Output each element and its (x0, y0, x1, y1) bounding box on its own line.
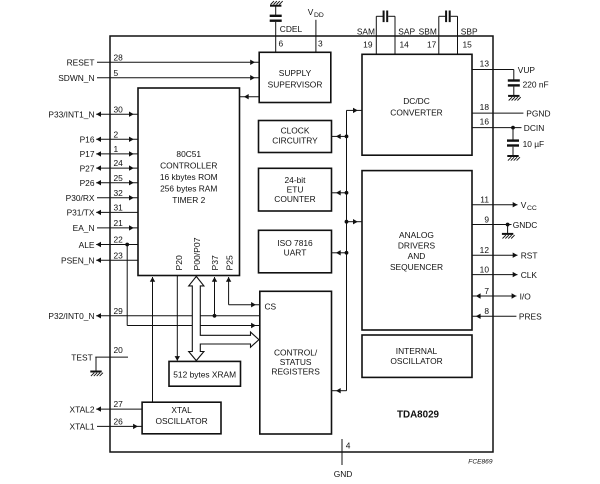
svg-text:10 µF: 10 µF (523, 139, 545, 149)
wire RESET pin 28 (97, 60, 259, 65)
svg-text:P25: P25 (225, 255, 235, 271)
svg-text:FCE869: FCE869 (468, 458, 493, 465)
svg-text:SBP: SBP (461, 27, 478, 37)
svg-text:9: 9 (484, 214, 489, 224)
svg-text:28: 28 (114, 52, 124, 62)
svg-text:SUPERVISOR: SUPERVISOR (268, 80, 323, 90)
capacitor 10 uF (507, 141, 519, 146)
svg-text:DD: DD (314, 12, 324, 19)
wire supply supervisor to 80C51 controller (240, 94, 260, 99)
svg-text:P37: P37 (210, 255, 220, 271)
svg-text:22: 22 (114, 235, 124, 245)
svg-text:3: 3 (318, 39, 323, 49)
svg-text:16 kbytes ROM: 16 kbytes ROM (160, 172, 218, 182)
block clock circuitry (259, 121, 332, 153)
svg-text:DCIN: DCIN (524, 123, 544, 133)
svg-text:CLK: CLK (521, 270, 538, 280)
wire P27 pin 24 (96, 165, 138, 170)
ground (TEST) (90, 372, 103, 377)
svg-text:RST: RST (521, 251, 538, 261)
wire CDEL pin 6 into supply supervisor (275, 22, 277, 52)
svg-text:5: 5 (114, 68, 119, 78)
svg-text:CONTROL/: CONTROL/ (274, 348, 318, 358)
svg-text:19: 19 (363, 40, 373, 50)
junction P37 to P32/INT0_N line (213, 314, 217, 318)
wire P37 to P32/INT0_N node (212, 277, 217, 316)
wire PRES pin 8 into analog drivers (472, 314, 516, 319)
svg-text:ALE: ALE (79, 240, 95, 250)
ground (DCIN capacitor) (507, 156, 520, 161)
svg-text:80C51: 80C51 (176, 149, 201, 159)
svg-text:UART: UART (284, 247, 307, 257)
svg-text:XTAL1: XTAL1 (70, 422, 95, 432)
wire GNDC pin 9 (472, 224, 512, 226)
svg-text:DC/DC: DC/DC (403, 96, 430, 106)
svg-text:12: 12 (480, 245, 490, 255)
svg-text:RESET: RESET (67, 58, 95, 68)
svg-text:CDEL: CDEL (280, 24, 303, 34)
wire DCIN to capacitor (512, 128, 514, 140)
wire P25 to CS input (226, 277, 260, 307)
svg-text:V: V (521, 200, 527, 210)
svg-text:CONVERTER: CONVERTER (390, 108, 442, 118)
wire P30/RX pin 32 (97, 195, 138, 200)
wire SBP pin 15 into DC/DC converter (457, 16, 459, 54)
wire P16 pin 2 (96, 137, 138, 142)
svg-text:256 bytes RAM: 256 bytes RAM (160, 184, 217, 194)
svg-text:PGND: PGND (526, 108, 550, 118)
wire P26 pin 25 (96, 180, 138, 185)
wire SBM pin 17 into DC/DC converter (438, 16, 440, 54)
svg-text:SDWN_N: SDWN_N (58, 73, 94, 83)
svg-text:SAP: SAP (398, 27, 415, 37)
svg-text:PRES: PRES (519, 312, 542, 322)
block supply supervisor (259, 52, 331, 102)
wire bus to analog drivers (345, 219, 362, 224)
svg-text:P32/INT0_N: P32/INT0_N (48, 311, 94, 321)
svg-text:CC: CC (527, 205, 537, 212)
svg-text:2: 2 (114, 129, 119, 139)
svg-text:18: 18 (480, 102, 490, 112)
net label VDD (308, 7, 324, 19)
svg-text:CONTROLLER: CONTROLLER (160, 160, 217, 170)
block DC/DC converter (362, 54, 472, 155)
svg-text:INTERNAL: INTERNAL (396, 346, 438, 356)
svg-text:OSCILLATOR: OSCILLATOR (390, 356, 442, 366)
wire ALE pin 22 (96, 242, 138, 247)
svg-text:P00/P07: P00/P07 (192, 237, 202, 270)
svg-text:SEQUENCER: SEQUENCER (390, 262, 443, 272)
block 24-bit ETU counter (259, 168, 332, 211)
svg-text:DRIVERS: DRIVERS (398, 241, 436, 251)
svg-text:11: 11 (480, 195, 489, 205)
svg-text:220 nF: 220 nF (523, 80, 549, 90)
wire P31/TX pin 31 (96, 210, 138, 215)
svg-text:SBM: SBM (419, 27, 437, 37)
wire RST pin 12 from analog drivers (472, 253, 518, 258)
wire PSEN_N pin 23 (96, 258, 138, 263)
svg-text:10: 10 (480, 264, 490, 274)
svg-text:ANALOG: ANALOG (399, 230, 434, 240)
svg-text:17: 17 (427, 40, 437, 50)
svg-text:AND: AND (408, 251, 426, 261)
svg-text:P16: P16 (80, 135, 95, 145)
wire TEST to ground (95, 357, 97, 371)
wire P20 to 512 bytes XRAM (175, 276, 180, 361)
svg-text:TIMER 2: TIMER 2 (172, 195, 205, 205)
wire VUP pin 13 from DC/DC converter (472, 70, 514, 80)
bus P00/P07 between 80C51, XRAM and control/status registers (189, 276, 259, 360)
svg-text:PSEN_N: PSEN_N (61, 256, 95, 266)
junction GNDC ground (506, 223, 510, 227)
wire SAP pin 14 into DC/DC converter (394, 16, 396, 54)
svg-text:TDA8029: TDA8029 (397, 410, 439, 421)
svg-text:8: 8 (484, 306, 489, 316)
svg-text:I/O: I/O (520, 291, 532, 301)
svg-text:26: 26 (114, 417, 124, 427)
svg-text:P17: P17 (80, 149, 95, 159)
wire I/O pin 7 bidirectional (472, 293, 516, 298)
svg-text:COUNTER: COUNTER (274, 194, 315, 204)
wire capacitor to ground (513, 87, 515, 96)
svg-text:31: 31 (114, 203, 124, 213)
wire capacitor stub SAP side (388, 15, 395, 17)
block XTAL oscillator (142, 402, 221, 434)
svg-text:24: 24 (114, 158, 124, 168)
svg-text:EA_N: EA_N (73, 223, 95, 233)
wire XTAL oscillator to 80C51 controller (150, 277, 155, 402)
svg-text:15: 15 (463, 40, 473, 50)
svg-text:P20: P20 (174, 255, 184, 271)
wire capacitor stub SBP side (451, 15, 458, 17)
svg-text:REGISTERS: REGISTERS (271, 366, 320, 376)
svg-text:1: 1 (114, 144, 119, 154)
wire GNDC to ground (507, 225, 509, 234)
wire ground to capacitor CDEL (275, 6, 277, 15)
block analog drivers and sequencer (362, 171, 472, 330)
wire CLK pin 10 from analog drivers (472, 272, 518, 277)
wire TEST pin 20 (95, 356, 128, 358)
wire capacitor to ground (512, 147, 514, 156)
wire XTAL2 pin 27 (96, 406, 142, 411)
svg-text:CLOCK: CLOCK (281, 126, 310, 136)
wire capacitor stub SBM side (439, 15, 446, 17)
ground (VUP capacitor) (508, 96, 521, 101)
svg-text:13: 13 (480, 58, 490, 68)
svg-text:SUPPLY: SUPPLY (279, 68, 312, 78)
wire ALE branch to control/status registers (127, 245, 260, 329)
junction ALE branch (125, 243, 129, 247)
svg-text:16: 16 (480, 116, 490, 126)
wire XTAL1 pin 26 (97, 424, 142, 429)
capacitor SBM-SBP (446, 11, 450, 23)
svg-text:CS: CS (265, 301, 277, 311)
svg-text:7: 7 (484, 286, 489, 296)
svg-text:TEST: TEST (71, 352, 92, 362)
wire SAM pin 19 into DC/DC converter (375, 16, 377, 54)
svg-text:P33/INT1_N: P33/INT1_N (48, 110, 94, 120)
wire VCC pin 11 from analog drivers (472, 202, 518, 207)
wire bus to clock circuitry (332, 134, 349, 139)
svg-text:20: 20 (114, 345, 124, 355)
wire DCIN pin 16 (472, 127, 522, 129)
wire EA_N pin 21 (97, 225, 138, 230)
wire P17 pin 1 (96, 151, 138, 156)
capacitor SAM-SAP (384, 11, 388, 23)
wire PGND pin 18 (472, 112, 523, 114)
wire SDWN_N pin 5 (97, 75, 259, 80)
wire bus to control/status registers (332, 388, 347, 393)
svg-text:32: 32 (114, 188, 124, 198)
svg-text:P31/TX: P31/TX (67, 208, 95, 218)
wire bus to DC/DC converter (347, 108, 363, 113)
svg-text:23: 23 (114, 250, 124, 260)
svg-text:4: 4 (346, 441, 351, 451)
svg-text:21: 21 (114, 218, 124, 228)
svg-text:SAM: SAM (357, 27, 375, 37)
ground (GNDC) (502, 234, 515, 239)
svg-text:30: 30 (114, 104, 124, 114)
wire VDD pin 3 into supply supervisor (315, 20, 317, 53)
wire capacitor stub SAM side (376, 15, 383, 17)
net label VCC (521, 200, 537, 212)
svg-text:CIRCUITRY: CIRCUITRY (272, 135, 318, 145)
capacitor 220 nF (508, 81, 520, 86)
svg-text:V: V (308, 7, 314, 17)
wire bus to ISO 7816 UART (332, 250, 349, 255)
svg-text:27: 27 (114, 399, 124, 409)
block internal oscillator (362, 335, 472, 377)
wire P33/INT1_N pin 30 (96, 112, 138, 117)
svg-text:6: 6 (279, 39, 284, 49)
ground (CDEL decoupling) (270, 1, 283, 6)
wire P32/INT0_N pin 29 to control/status registers (96, 313, 260, 318)
svg-text:XTAL: XTAL (171, 405, 192, 415)
svg-text:GND: GND (334, 469, 353, 479)
svg-text:VUP: VUP (518, 65, 536, 75)
svg-text:OSCILLATOR: OSCILLATOR (155, 416, 207, 426)
svg-text:GNDC: GNDC (513, 220, 538, 230)
wire bus to ETU counter (332, 190, 349, 195)
svg-text:14: 14 (400, 40, 410, 50)
block control/status registers (260, 291, 332, 434)
block ISO 7816 UART (259, 230, 332, 272)
svg-text:XTAL2: XTAL2 (70, 404, 95, 414)
capacitor CDEL (270, 16, 282, 21)
block 512 bytes XRAM (169, 361, 241, 386)
svg-text:P27: P27 (80, 163, 95, 173)
svg-text:29: 29 (114, 306, 124, 316)
IC package boundary TDA8029 (110, 36, 493, 452)
block 80C51 controller (138, 88, 240, 276)
junction DCIN capacitor (511, 126, 515, 130)
wire internal data bus vertical (346, 110, 348, 390)
svg-text:P26: P26 (80, 178, 95, 188)
svg-text:P30/RX: P30/RX (66, 193, 95, 203)
svg-text:25: 25 (114, 173, 124, 183)
svg-text:512 bytes XRAM: 512 bytes XRAM (173, 370, 236, 380)
wire GND pin 4 (341, 439, 343, 465)
